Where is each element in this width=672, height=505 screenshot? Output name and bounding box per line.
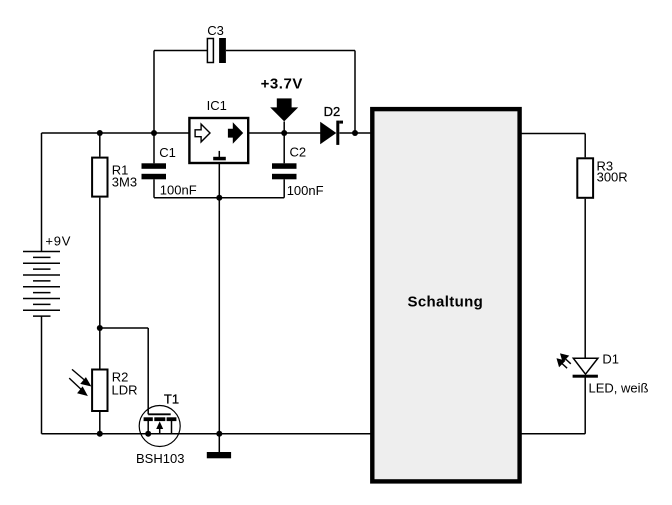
op-amp IC1 regulator box <box>189 118 248 163</box>
svg-text:300R: 300R <box>597 169 628 184</box>
wire IC1 gnd lead <box>218 160 220 198</box>
LED D1 <box>573 358 598 378</box>
R2 light arrows <box>69 369 90 395</box>
wire D2 cathode to Schaltung <box>340 132 372 134</box>
IC1 internal ground pin <box>213 151 226 160</box>
svg-text:Schaltung: Schaltung <box>407 293 483 310</box>
svg-text:C1: C1 <box>159 145 176 160</box>
capacitor C1 <box>142 163 167 179</box>
wire R2 bottom lead <box>99 412 101 434</box>
wire C2 to gnd node horizontal <box>219 197 284 199</box>
svg-text:IC1: IC1 <box>207 98 227 113</box>
node gnd link <box>216 195 222 201</box>
wire left vertical battery top <box>41 133 43 252</box>
ground <box>207 452 231 458</box>
capacitor C3 polarized <box>207 38 226 63</box>
wire C2 bottom lead <box>283 179 285 197</box>
wire C1 to gnd node horizontal <box>154 197 219 199</box>
capacitor C2 <box>272 163 297 179</box>
node R1/R2/gate <box>97 325 103 331</box>
supply arrow +3.7V <box>270 98 298 121</box>
wire IC1 output to D2 anode <box>249 132 321 134</box>
wire R1 top lead <box>99 133 101 157</box>
node D2 cathode / C3 <box>352 130 358 136</box>
wire gate link horizontal <box>100 327 148 329</box>
resistor R3 <box>577 158 593 198</box>
svg-text:+3.7V: +3.7V <box>261 76 303 93</box>
svg-text:T1: T1 <box>164 391 179 406</box>
svg-text:LED, weiß: LED, weiß <box>589 381 649 396</box>
wire C1 top lead <box>153 133 155 163</box>
wire C2 top lead <box>283 122 285 164</box>
svg-text:BSH103: BSH103 <box>136 451 184 466</box>
svg-text:D2: D2 <box>324 104 341 119</box>
IC1 input arrow (open) <box>195 124 210 142</box>
wire R1 bottom lead <box>99 198 101 328</box>
svg-text:100nF: 100nF <box>287 183 324 198</box>
wire gnd vertical to rail <box>218 198 220 452</box>
Schaltung box <box>372 109 519 481</box>
wire C1 bottom lead <box>153 179 155 197</box>
node C1/C3 <box>151 130 157 136</box>
svg-text:D1: D1 <box>602 352 619 367</box>
wire bottom rail <box>42 433 372 435</box>
wire D1 to Schaltung horizontal <box>521 433 585 435</box>
transistor T1 MOSFET <box>139 406 180 447</box>
node T1 source rail <box>145 431 151 437</box>
wire C3 left horizontal <box>154 50 208 52</box>
resistor R1 <box>92 158 107 197</box>
node junction dots <box>97 130 358 437</box>
node R1 top <box>97 130 103 136</box>
svg-text:LDR: LDR <box>112 383 138 398</box>
wire battery bottom vertical <box>41 316 43 434</box>
wire D1 bottom lead <box>584 378 586 434</box>
node R2 bottom rail <box>97 431 103 437</box>
battery BT1 <box>23 252 60 317</box>
wire R3 top lead <box>584 134 586 158</box>
wire C3 right horizontal <box>226 50 355 52</box>
wire R3 to D1 <box>584 199 586 358</box>
node +3.7V / C2 <box>281 130 287 136</box>
wire Schaltung to R3 horizontal <box>521 133 585 135</box>
wire main rail left segment <box>42 132 189 134</box>
svg-text:3M3: 3M3 <box>112 175 137 190</box>
diode D2 <box>320 121 343 145</box>
D1 light arrows <box>558 354 571 368</box>
svg-text:C2: C2 <box>290 145 307 160</box>
svg-text:C3: C3 <box>207 23 224 38</box>
IC1 output arrow (filled) <box>228 124 242 143</box>
wire C3 left vertical <box>153 51 155 134</box>
wire gate vertical <box>147 328 149 414</box>
svg-text:100nF: 100nF <box>160 182 197 197</box>
resistor R2 (LDR) <box>92 370 107 412</box>
svg-text:+9V: +9V <box>45 233 71 248</box>
wire C3 right vertical <box>354 51 356 134</box>
wire R2 top lead <box>99 328 101 369</box>
node gnd rail <box>216 431 222 437</box>
